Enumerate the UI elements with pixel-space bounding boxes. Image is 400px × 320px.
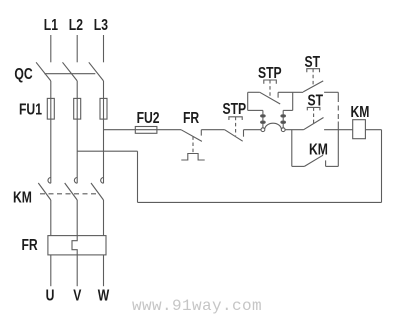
wire phase2 FU1 to KM contact bbox=[76, 98, 78, 183]
wire ST1 drop vertical dashed middle bbox=[337, 97, 339, 122]
svg-text:QC: QC bbox=[14, 65, 32, 83]
connector contact right lower bbox=[281, 121, 286, 123]
wire L3 lead bbox=[103, 35, 105, 62]
wire KM aux bottom right bbox=[326, 165, 339, 167]
pushbutton ST1 stem dashed bbox=[312, 69, 314, 87]
pushbutton ST1 NO blade bbox=[303, 81, 323, 92]
svg-text:FR: FR bbox=[183, 109, 199, 127]
svg-text:KM: KM bbox=[13, 189, 32, 207]
wire motor lead W bbox=[103, 255, 105, 286]
fuse FU2 bbox=[135, 127, 157, 134]
wire motor lead V bbox=[76, 255, 78, 286]
fuse FU1 pole2 bbox=[74, 98, 81, 119]
pushbutton ST1 actuator bbox=[307, 69, 320, 73]
svg-text:L2: L2 bbox=[69, 16, 83, 34]
thermal relay FR trip linkage dashed bbox=[192, 136, 194, 153]
wire STP2 output rail bbox=[278, 91, 303, 93]
connector contact left lower bbox=[261, 121, 266, 123]
svg-text:STP: STP bbox=[223, 100, 247, 118]
thermal relay FR heater jog phase2 bbox=[72, 236, 77, 255]
wire KM aux bottom left bbox=[292, 165, 305, 167]
wire L1 lead bbox=[50, 35, 52, 62]
svg-text:FU1: FU1 bbox=[19, 101, 42, 119]
switch QC linkage bar bbox=[44, 73, 95, 75]
wire return bottom horizontal bbox=[138, 201, 382, 203]
svg-text:L1: L1 bbox=[44, 16, 58, 34]
wire phase1 KM to FR bbox=[50, 200, 52, 236]
thermal relay FR NC contact blade bbox=[181, 130, 202, 142]
wire ST1 drop vertical solid bottom bbox=[337, 122, 339, 167]
wire ST1 output bbox=[324, 91, 338, 93]
wire connector right horizontal bbox=[283, 109, 293, 111]
wire STP1 to terminal circle bbox=[244, 129, 262, 131]
wire FR contact to STP1 bbox=[201, 129, 224, 131]
wire phase2 KM to FR bbox=[76, 200, 78, 236]
wire coil to right corner bbox=[365, 129, 381, 131]
contactor KM pole1 blade bbox=[38, 183, 51, 200]
fuse FU1 pole3 bbox=[100, 98, 107, 119]
wire rail right of terminal bbox=[285, 129, 304, 131]
svg-text:FU2: FU2 bbox=[137, 109, 160, 127]
wire connector right vertical bbox=[282, 110, 284, 127]
pushbutton STP1 stem dashed bbox=[235, 117, 237, 136]
thermal relay FR heater box bbox=[48, 236, 106, 255]
pushbutton STP2 NC tick bbox=[277, 92, 279, 97]
contactor KM pole3 arc contact bbox=[101, 178, 104, 184]
svg-text:L3: L3 bbox=[94, 16, 108, 34]
removable link arc bbox=[265, 123, 282, 129]
svg-text:www.91way.com: www.91way.com bbox=[132, 297, 262, 315]
contact KM auxiliary tick bbox=[325, 160, 327, 166]
fuse FU1 pole1 bbox=[47, 98, 54, 119]
svg-text:KM: KM bbox=[309, 141, 328, 159]
contactor KM linkage dashed bbox=[40, 193, 97, 195]
contact KM auxiliary NO blade bbox=[304, 155, 323, 166]
svg-text:U: U bbox=[46, 287, 55, 305]
wire STP2 input bbox=[248, 91, 260, 93]
wire phase1 QC to FU1 bbox=[50, 81, 52, 99]
wire FU2 to FR contact bbox=[157, 129, 181, 131]
wire riser to STP2 bbox=[247, 92, 249, 110]
wire phase3 QC to FU1 bbox=[103, 81, 105, 99]
connector contact right upper bbox=[281, 115, 286, 117]
wire phase1 FU1 to KM contact bbox=[50, 98, 52, 183]
pushbutton STP2 actuator bbox=[264, 80, 277, 84]
wire L2 lead bbox=[76, 35, 78, 62]
contactor KM pole3 blade bbox=[91, 183, 104, 200]
wire phase3 FU1 to KM contact bbox=[103, 98, 105, 183]
svg-text:V: V bbox=[73, 287, 82, 305]
wire control feed from L3 to FU2 bbox=[104, 129, 157, 131]
pushbutton STP2 stem dashed bbox=[269, 80, 271, 98]
wire return right vertical bbox=[381, 130, 383, 203]
connector contact left upper bbox=[261, 115, 266, 117]
wire KM aux left riser bbox=[291, 130, 293, 167]
wire phase2 QC to FU1 bbox=[76, 81, 78, 99]
wire return left vertical bbox=[137, 151, 139, 202]
switch QC pole 1 blade bbox=[36, 62, 51, 81]
thermal relay FR element symbol bbox=[181, 154, 204, 161]
wire ST1 drop vertical solid top bbox=[337, 92, 339, 97]
svg-text:KM: KM bbox=[351, 103, 370, 121]
svg-text:FR: FR bbox=[22, 236, 38, 254]
terminal circle left bbox=[261, 128, 265, 132]
terminal circle right bbox=[281, 128, 285, 132]
contactor KM pole2 arc contact bbox=[74, 178, 77, 184]
switch QC pole 2 blade bbox=[63, 62, 78, 81]
contactor KM pole2 blade bbox=[65, 183, 78, 200]
pushbutton STP1 NC blade bbox=[225, 130, 243, 142]
wire connector left vertical bbox=[262, 110, 264, 127]
contactor KM pole1 arc contact bbox=[48, 178, 51, 184]
wire tap down from upper rail bbox=[292, 92, 294, 110]
wire ST2 output to coil bbox=[324, 129, 353, 131]
pushbutton ST2 stem dashed bbox=[313, 107, 315, 123]
wire motor lead U bbox=[50, 255, 52, 286]
wire phase3 KM to FR bbox=[103, 200, 105, 236]
thermal relay FR NC contact tick bbox=[200, 130, 202, 136]
pushbutton STP2 NC blade bbox=[260, 92, 280, 104]
pushbutton ST2 actuator bbox=[307, 107, 320, 110]
pushbutton ST2 NO blade bbox=[304, 118, 324, 130]
wire connector left horizontal bbox=[248, 109, 263, 111]
pushbutton STP1 actuator bbox=[229, 117, 242, 120]
wire return to L2 bbox=[77, 150, 137, 152]
pushbutton STP1 NC tick bbox=[243, 130, 245, 137]
svg-text:W: W bbox=[98, 287, 110, 305]
switch QC pole 3 blade bbox=[89, 62, 104, 81]
coil KM bbox=[353, 120, 366, 139]
